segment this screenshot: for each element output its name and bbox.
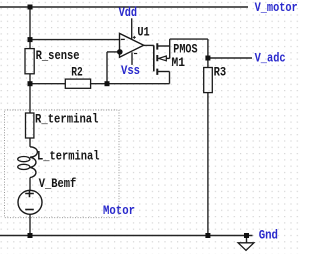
wire top rail net V_motor <box>0 6 248 8</box>
op-amp supply minus mark <box>134 53 137 55</box>
wire Vdd stub to op-amp <box>131 18 133 39</box>
wire V_adc node to label <box>208 57 252 59</box>
wire R_sense bottom to R2 node <box>29 74 31 113</box>
wire V_adc node to R3 <box>207 58 209 68</box>
wire op-amp output to gate <box>144 44 154 46</box>
junction bottom rail / R3 <box>205 233 210 238</box>
op-amp supply plus mark <box>133 36 136 39</box>
svg-text:R2: R2 <box>71 64 83 79</box>
inductor L_terminal loop 2 <box>18 164 30 169</box>
resistor R_sense <box>25 49 34 74</box>
wire gnd stub <box>246 236 248 243</box>
svg-text:V_motor: V_motor <box>255 0 298 15</box>
wire Vss stub from op-amp <box>131 52 133 65</box>
inductor L_terminal coil arcs <box>30 147 37 178</box>
wire MOSFET drain to top corner <box>169 39 171 58</box>
op-amp input node dot <box>117 49 123 55</box>
junction top rail / R_sense <box>28 5 33 10</box>
source V_Bemf plus mark <box>25 190 34 197</box>
op-amp U1 triangle <box>120 33 144 57</box>
wire V_Bemf to bottom rail <box>29 214 31 235</box>
wire to op-amp non-inverting input <box>107 51 120 53</box>
svg-text:R3: R3 <box>214 64 227 79</box>
resistor R3 <box>204 68 213 93</box>
resistor R2 <box>65 79 90 88</box>
wire drain corner to V_adc node <box>170 38 208 40</box>
junction R_sense top / op-amp input <box>28 37 33 42</box>
svg-text:Gnd: Gnd <box>259 228 278 243</box>
wire R3 bottom to bottom rail <box>207 93 209 236</box>
junction bottom rail / V_Bemf <box>28 233 33 238</box>
Motor dotted subcircuit box <box>5 110 120 218</box>
svg-text:Vss: Vss <box>121 63 140 78</box>
source V_Bemf minus mark <box>25 209 34 211</box>
transistor M1 source stub <box>157 71 169 73</box>
svg-text:L_terminal: L_terminal <box>37 149 100 164</box>
junction R_sense bottom / R2 <box>28 81 33 86</box>
svg-text:U1: U1 <box>137 25 149 40</box>
wire R2 node to R2 left <box>30 83 65 85</box>
resistor R_terminal <box>26 113 34 138</box>
transistor M1 bulk stub <box>166 57 169 59</box>
inductor L_terminal loop 1 <box>18 157 30 162</box>
source V_Bemf circle <box>18 190 42 214</box>
transistor M1 bulk arrow <box>159 56 167 61</box>
junction V_adc node <box>205 56 210 61</box>
wire bottom rail ground net <box>0 235 253 237</box>
svg-text:R_terminal: R_terminal <box>35 111 99 126</box>
junction R2 / feedback <box>105 81 110 86</box>
wire R_terminal to L_terminal <box>29 138 31 147</box>
transistor M1 drain stub <box>157 45 169 47</box>
svg-text:M1: M1 <box>172 55 186 70</box>
svg-text:Motor: Motor <box>103 203 135 218</box>
svg-text:Vdd: Vdd <box>119 5 138 20</box>
wire down into V_adc node <box>207 39 209 58</box>
svg-text:V_Bemf: V_Bemf <box>39 176 77 191</box>
ground symbol <box>238 243 254 251</box>
wire R2 right to MOSFET source leg <box>91 83 170 85</box>
op-amp inverting input minus mark <box>121 38 125 40</box>
wire from top rail down to R_sense <box>29 7 31 49</box>
wire MOSFET source leg down <box>169 72 171 84</box>
wire feedback vertical <box>106 52 108 84</box>
junction bottom rail / ground <box>244 233 249 238</box>
svg-text:V_adc: V_adc <box>255 51 286 66</box>
transistor M1 channel segments <box>156 43 158 75</box>
wire L_terminal to V_Bemf <box>29 178 31 191</box>
svg-text:R_sense: R_sense <box>36 48 80 63</box>
wire to op-amp inverting input <box>30 39 120 41</box>
transistor M1 gate bar <box>153 45 155 71</box>
